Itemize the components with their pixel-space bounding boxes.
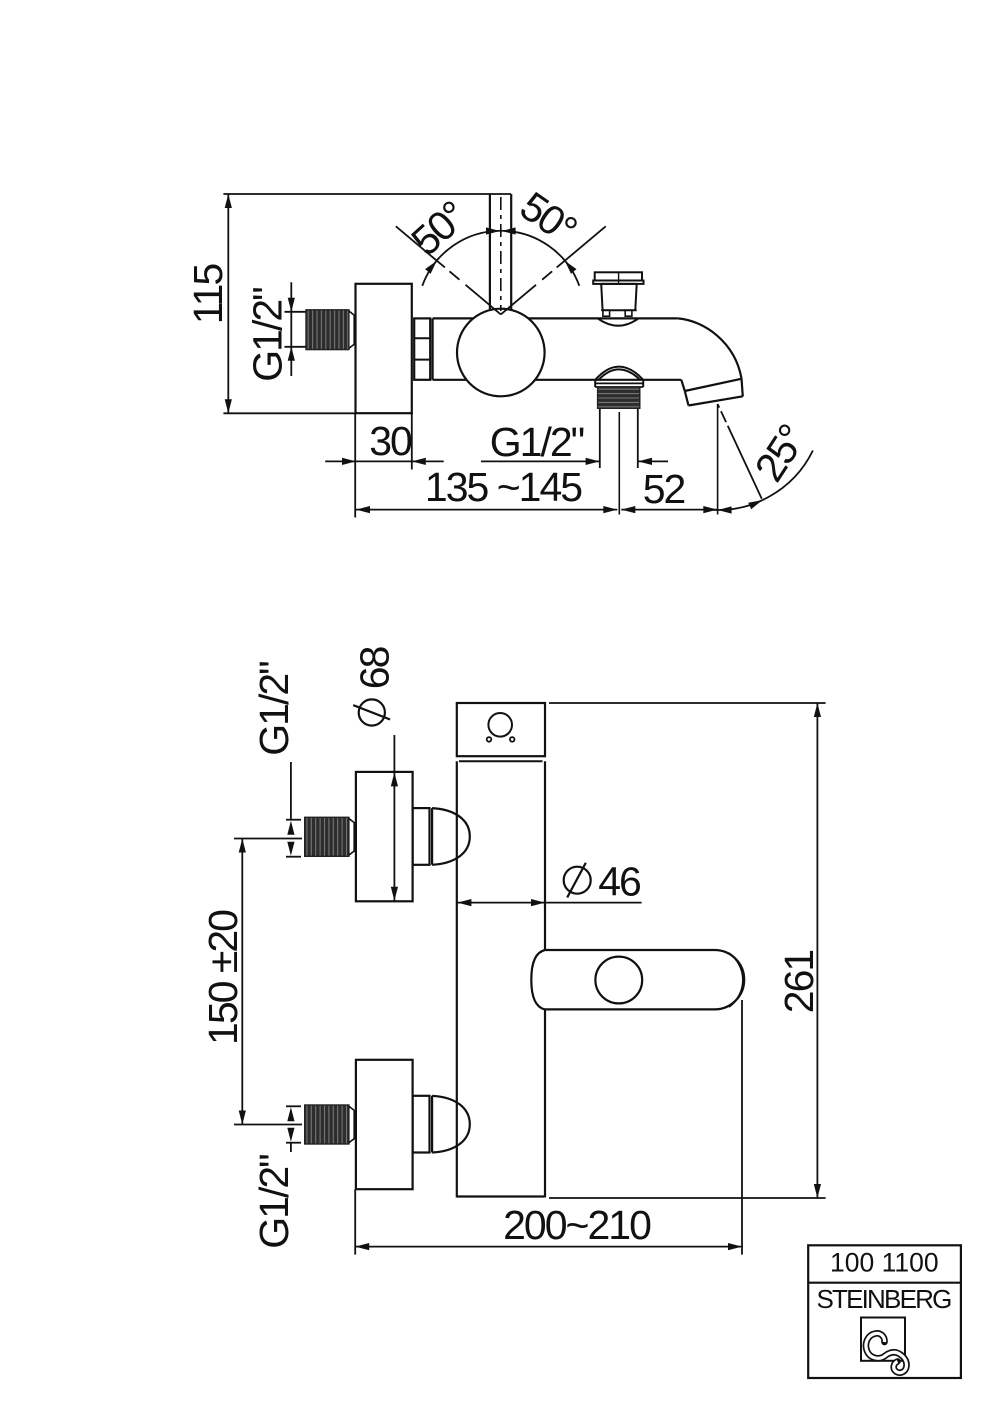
- svg-text:52: 52: [643, 466, 685, 512]
- svg-text:150 ±20: 150 ±20: [200, 910, 246, 1045]
- svg-text:115: 115: [185, 264, 231, 325]
- svg-text:G1/2": G1/2": [245, 288, 291, 382]
- svg-text:G1/2": G1/2": [251, 1155, 297, 1249]
- svg-text:200~210: 200~210: [503, 1202, 651, 1248]
- svg-text:68: 68: [352, 646, 398, 689]
- svg-text:100 1100: 100 1100: [830, 1248, 939, 1278]
- svg-text:135 ~145: 135 ~145: [425, 464, 582, 510]
- svg-text:261: 261: [776, 951, 822, 1014]
- svg-text:G1/2": G1/2": [490, 419, 584, 465]
- svg-text:30: 30: [369, 418, 412, 464]
- svg-text:G1/2": G1/2": [251, 662, 297, 756]
- svg-text:46: 46: [598, 859, 640, 905]
- svg-text:STEINBERG: STEINBERG: [816, 1284, 951, 1314]
